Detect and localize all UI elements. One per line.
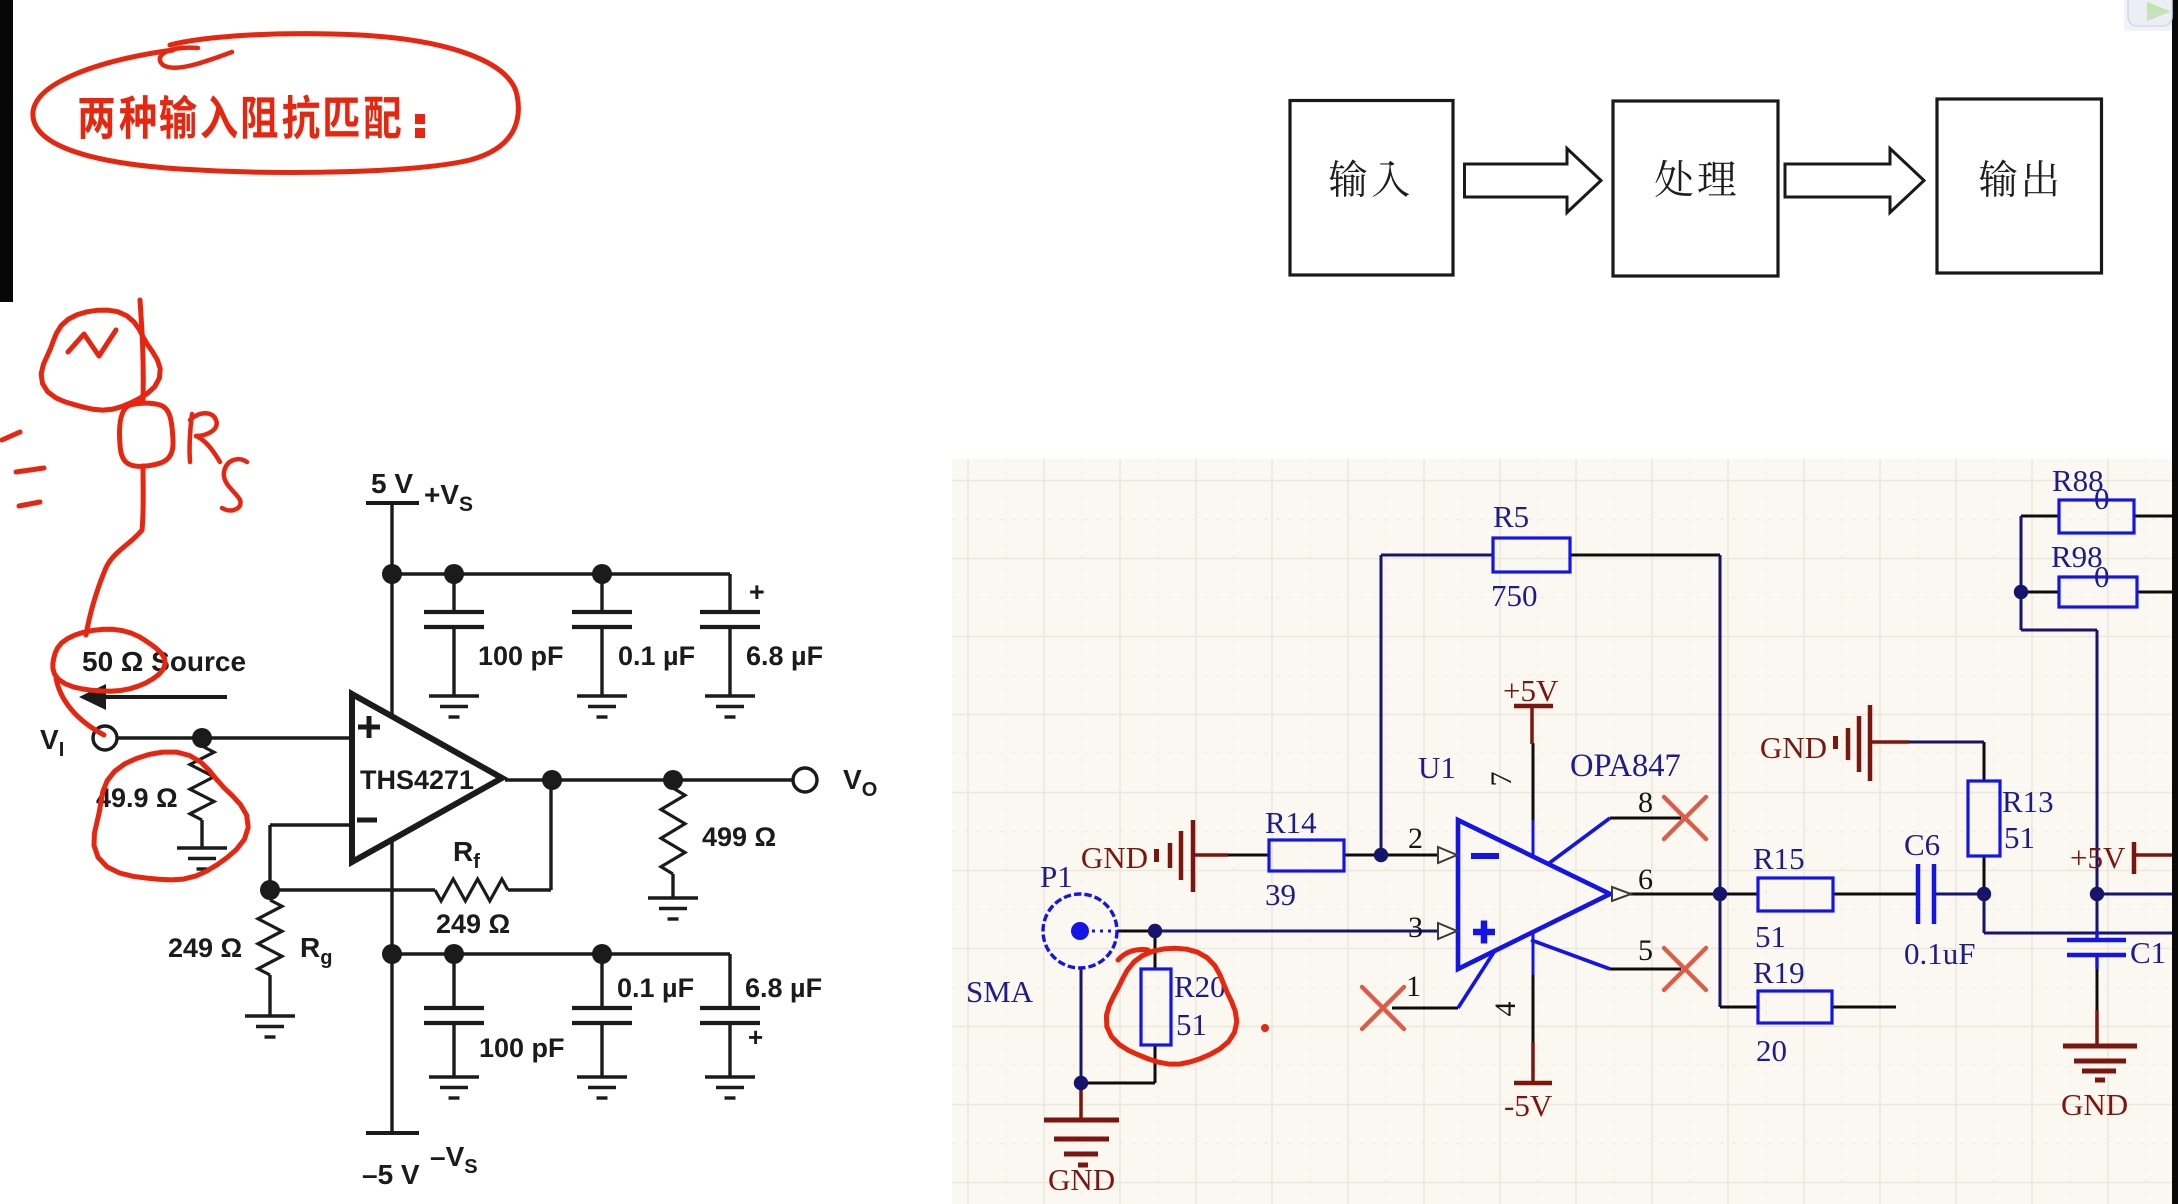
svg-text:100 pF: 100 pF (478, 641, 564, 671)
svg-text:C6: C6 (1904, 827, 1940, 862)
svg-text:R14: R14 (1265, 805, 1317, 840)
svg-text:3: 3 (1408, 911, 1423, 944)
svg-text:51: 51 (1755, 919, 1786, 954)
svg-text:39: 39 (1265, 877, 1296, 912)
svg-text:–5 V: –5 V (362, 1159, 420, 1190)
svg-text:R19: R19 (1753, 955, 1805, 990)
svg-text:R13: R13 (2002, 784, 2054, 819)
svg-text:6.8 µF: 6.8 µF (746, 641, 823, 671)
svg-text:GND: GND (1760, 730, 1827, 765)
svg-text:249 Ω: 249 Ω (168, 933, 242, 963)
svg-text:GND: GND (2061, 1087, 2128, 1122)
svg-text:-5V: -5V (1504, 1088, 1553, 1123)
svg-text:51: 51 (1176, 1007, 1207, 1042)
svg-text:49.9 Ω: 49.9 Ω (96, 783, 178, 813)
svg-text:GND: GND (1048, 1162, 1115, 1197)
svg-text:5: 5 (1638, 934, 1653, 967)
svg-text:THS4271: THS4271 (360, 765, 474, 795)
svg-text:4: 4 (1489, 1002, 1522, 1017)
svg-text:+5V: +5V (1503, 673, 1559, 708)
svg-text:7: 7 (1485, 772, 1518, 787)
svg-text:GND: GND (1081, 840, 1148, 875)
svg-text:+5V: +5V (2070, 840, 2126, 875)
svg-text:SMA: SMA (966, 974, 1034, 1009)
svg-text:0: 0 (2094, 559, 2110, 594)
svg-text:51: 51 (2004, 820, 2035, 855)
svg-text:OPA847: OPA847 (1570, 748, 1681, 784)
svg-text:8: 8 (1638, 786, 1653, 819)
svg-text:0.1uF: 0.1uF (1904, 936, 1976, 971)
svg-text:R5: R5 (1493, 499, 1529, 534)
svg-text:2: 2 (1408, 822, 1423, 855)
svg-text:750: 750 (1491, 578, 1538, 613)
svg-text:0: 0 (2094, 481, 2110, 516)
svg-text:+: + (749, 577, 765, 607)
svg-text:0.1 µF: 0.1 µF (618, 641, 695, 671)
svg-text:0.1 µF: 0.1 µF (617, 973, 694, 1003)
svg-text:6: 6 (1638, 863, 1653, 896)
svg-text:6.8 µF: 6.8 µF (745, 973, 822, 1003)
svg-text:20: 20 (1756, 1033, 1787, 1068)
svg-text:C1: C1 (2130, 935, 2166, 970)
svg-text:1: 1 (1406, 970, 1421, 1003)
svg-text:+: + (748, 1022, 763, 1052)
svg-text:249 Ω: 249 Ω (436, 909, 510, 939)
svg-text:499 Ω: 499 Ω (702, 822, 776, 852)
svg-text:U1: U1 (1418, 750, 1456, 785)
svg-text:5 V: 5 V (371, 468, 413, 499)
svg-text:P1: P1 (1040, 859, 1073, 894)
svg-text:100 pF: 100 pF (479, 1033, 565, 1063)
svg-text:R15: R15 (1753, 841, 1805, 876)
